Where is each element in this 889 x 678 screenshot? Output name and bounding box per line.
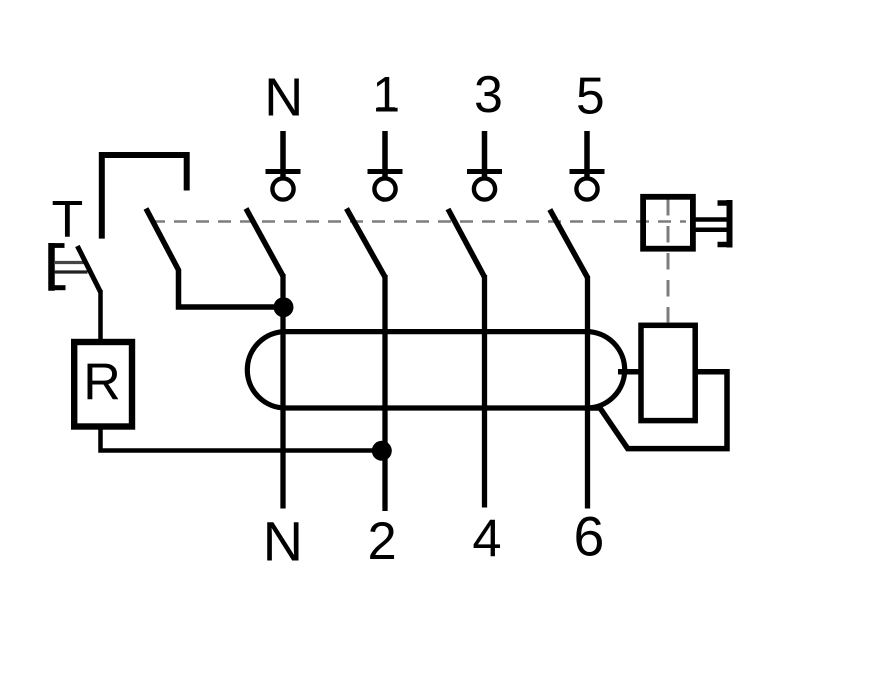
junction dot on conductor 2	[372, 441, 392, 461]
svg-text:N: N	[263, 510, 303, 573]
switch pole 5-6 blade	[550, 210, 588, 278]
switch test button contact blade	[77, 246, 100, 292]
terminal 5 top (stem, crossbar, circle)	[570, 131, 605, 200]
wire conductor 6 vertical	[585, 276, 590, 509]
wire toroid secondary to trip coil (left lead)	[618, 369, 640, 375]
actuator box (trip mechanism)	[643, 197, 693, 249]
svg-text:4: 4	[472, 509, 501, 568]
wire conductor 4 vertical	[482, 275, 487, 508]
wire (test-circuit staple from button to aux contact)	[102, 155, 187, 239]
test push button actuator	[52, 243, 88, 291]
svg-text:N: N	[264, 68, 303, 128]
manual operating handle symbol	[696, 200, 733, 248]
svg-text:1: 1	[372, 67, 400, 123]
svg-text:2: 2	[367, 512, 396, 571]
wire resistor to conductor 2	[101, 429, 383, 451]
current transformer toroid core	[247, 332, 624, 408]
terminal 1 top (stem, crossbar, circle)	[368, 131, 403, 200]
wire test button to resistor	[98, 290, 103, 340]
wire N conductor vertical	[280, 274, 285, 509]
resistor R box	[74, 342, 132, 427]
svg-text:6: 6	[573, 506, 604, 568]
switch pole 1-2 blade	[347, 209, 386, 278]
wire conductor 2 vertical	[382, 275, 387, 511]
mechanical linkage (horizontal dashed line)	[152, 220, 686, 223]
wire toroid secondary return loop	[587, 372, 728, 449]
svg-text:R: R	[83, 354, 121, 412]
terminal 3 top (stem, crossbar, circle)	[467, 131, 502, 200]
switch pole 3-4 blade	[448, 209, 485, 277]
svg-text:3: 3	[474, 66, 503, 124]
switch pole N blade	[246, 209, 283, 277]
terminal N top (stem, crossbar, circle)	[266, 131, 301, 200]
svg-text:5: 5	[576, 66, 605, 124]
junction dot on N conductor	[274, 297, 294, 317]
trip coil (relay) box	[641, 325, 695, 420]
switch auxiliary contact (test circuit)	[146, 209, 283, 308]
svg-text:T: T	[52, 191, 84, 249]
mechanical linkage (vertical dashed line to trip coil)	[667, 199, 670, 322]
